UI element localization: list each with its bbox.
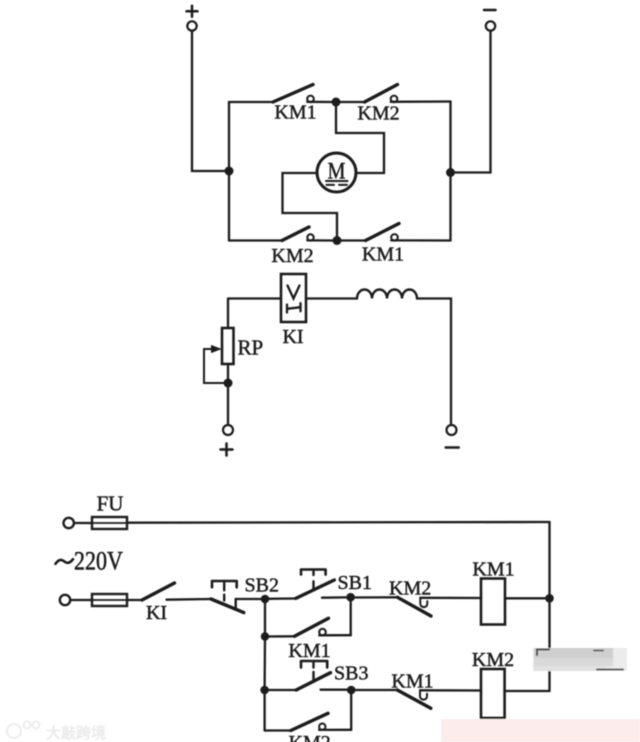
label ~220V (56, 559, 74, 564)
pushbutton SB3 (NO) (296, 661, 347, 690)
wire node A2 down to node D (263, 637, 266, 691)
node: RP wiper junction (224, 379, 233, 388)
node: left rail junction (225, 167, 234, 176)
wire to KM1 self-hold contact (265, 635, 295, 638)
svg-text:RP: RP (238, 336, 264, 360)
svg-text:M: M (328, 158, 346, 183)
terminal - (top supply) (484, 10, 496, 31)
contact KM2 (bottom, NO) (282, 227, 333, 241)
contact KM1 (self-hold NO) (295, 618, 351, 636)
wire: motor left terminal to bottom junction (283, 173, 338, 237)
wire self-hold row up to node B (350, 598, 352, 636)
svg-text:KM1: KM1 (274, 102, 316, 124)
svg-text:KM1: KM1 (472, 559, 514, 581)
watermark logo bottom-left (7, 722, 40, 739)
svg-text:KM2: KM2 (357, 103, 399, 125)
node A (261, 595, 270, 604)
wire: inductor to - terminal (417, 299, 451, 426)
wire: right rail of H-bridge (449, 102, 451, 241)
inductor L1 (357, 290, 417, 299)
wire: left rail of H-bridge (228, 102, 230, 241)
svg-text:SB2: SB2 (245, 575, 279, 597)
relay coil KI (box) (281, 274, 306, 322)
wire: RP to + terminal (227, 364, 229, 425)
svg-text:KM2: KM2 (389, 578, 431, 600)
pink band (scan artifact) (441, 719, 640, 742)
wire: right control rail (548, 522, 550, 691)
svg-text:KI: KI (146, 602, 167, 624)
wire: middle loop top-left corner (228, 299, 281, 329)
node A2 (261, 632, 269, 640)
wire node E to KM1 NC (351, 689, 397, 691)
wire from + terminal to left rail (192, 31, 225, 171)
coil KM1 (481, 579, 505, 625)
potentiometer RP (222, 328, 234, 364)
wire: bottom rail middle segment (337, 239, 366, 241)
wire node A down to self-hold row (264, 599, 266, 637)
contact KM1 (bottom, NO) (366, 224, 451, 241)
wire: top control rail (127, 521, 550, 524)
wire self-hold row up to node E (350, 690, 352, 730)
terminal - (middle) (446, 425, 459, 448)
fuse FU (92, 517, 127, 529)
node E (347, 686, 356, 695)
node: top center junction (332, 98, 341, 107)
svg-text:SB1: SB1 (338, 572, 372, 594)
contact KM2 (self-hold NO) (291, 713, 351, 730)
terminal + (middle) (221, 425, 234, 456)
svg-text:KM2: KM2 (271, 245, 313, 267)
wire node B to KM2 NC (350, 596, 398, 599)
wire node A to SB1 (265, 597, 296, 600)
contact KM2 (top, NO) (365, 85, 451, 103)
svg-text:FU: FU (97, 492, 124, 516)
wire from - terminal to right rail (455, 31, 491, 173)
svg-text:220V: 220V (74, 548, 123, 576)
node: right rail junction (446, 168, 455, 177)
wire node D to SB3 (265, 689, 296, 691)
svg-text:KM1: KM1 (288, 640, 330, 662)
wire node D down to KM2 self-hold row (263, 690, 265, 731)
contact KM1 (NC interlock) (397, 690, 481, 708)
svg-text:KM2: KM2 (289, 732, 331, 742)
wire KI to SB2 (167, 598, 212, 601)
fuse FU2 (92, 594, 127, 606)
wire to KM2 self-hold contact (265, 729, 291, 731)
wire: top rail left segment (229, 101, 273, 103)
pushbutton SB2 (NC) (211, 581, 261, 613)
svg-text:SB3: SB3 (334, 663, 368, 685)
wire: top rail middle segment (336, 101, 365, 103)
wire coil KM1 to right rail (505, 597, 550, 599)
contact KM1 (top, NO) (273, 85, 332, 103)
contact KM2 (NC interlock) (398, 597, 482, 616)
coil KM2 (481, 669, 505, 718)
node: bottom center junction (333, 236, 342, 245)
wire to fuse (74, 522, 92, 524)
RP wiper arrow (204, 345, 224, 383)
terminal + (top supply) (187, 6, 198, 31)
KI coil I mark (287, 303, 301, 312)
node D (260, 686, 269, 695)
motor M1 (DC motor) (317, 153, 356, 192)
wire to fuse 2 (71, 599, 93, 601)
terminal (220V line 1) (63, 518, 73, 528)
censor patch (blurred watermark) (533, 648, 627, 671)
pushbutton SB1 (NO) (296, 570, 346, 599)
terminal (220V line 2) (60, 595, 70, 605)
svg-text:KM1: KM1 (362, 244, 404, 266)
KI coil V mark (288, 286, 300, 299)
svg-text:KI: KI (282, 326, 303, 348)
svg-text:KM2: KM2 (472, 649, 514, 671)
svg-text:大敲跨境: 大敲跨境 (46, 724, 106, 742)
wire coil KM2 to right rail (505, 690, 550, 692)
wire fuse2 to KI contact (127, 599, 142, 601)
node B (346, 593, 355, 602)
wire: KI box to inductor (306, 297, 357, 299)
node C (right rail) (545, 594, 554, 603)
svg-text:KM1: KM1 (391, 671, 433, 693)
contact KI (NO) (142, 583, 175, 600)
wire: motor right terminal to top junction (336, 107, 384, 174)
wire: bottom rail left segment (229, 239, 282, 241)
